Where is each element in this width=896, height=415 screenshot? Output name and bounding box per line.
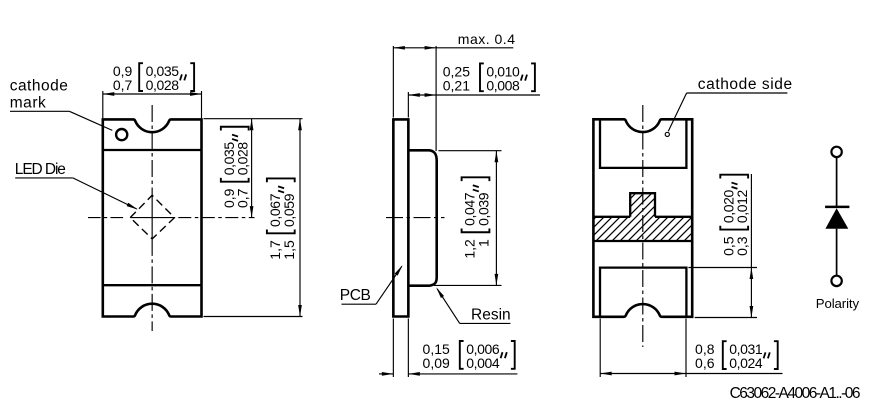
svg-text:mark: mark (10, 94, 47, 111)
svg-text:C63062-A4006-A1..-06: C63062-A4006-A1..-06 (730, 385, 860, 402)
extension line PCB left top (392, 46, 394, 118)
dimension line 0,5/0,3 (750, 174, 752, 318)
LED die diamond (dashed) (130, 195, 174, 239)
svg-text:0,039: 0,039 (476, 192, 492, 226)
dim text rotated 1,7/1,5 [0.067/0.059] (267, 178, 297, 259)
leader line cathode mark (10, 110, 69, 112)
svg-text:Polarity: Polarity (816, 296, 860, 311)
polarity wire bottom (836, 229, 838, 276)
svg-text:0,028: 0,028 (235, 142, 251, 176)
svg-text:0,028: 0,028 (146, 77, 180, 93)
front view horizontal centerline (88, 217, 126, 219)
extension line body bottom right (695, 317, 757, 319)
svg-text:PCB: PCB (340, 287, 371, 304)
leader line PCB (342, 303, 377, 305)
svg-text:cathode side: cathode side (698, 76, 793, 93)
dim text rotated 0,9/0,7 [0.035/0.028] (221, 127, 251, 208)
LED package front view body outline (103, 119, 202, 316)
dim text 0,15/0,09 [0.006/0.004] (423, 341, 515, 371)
leader line cathode side (687, 92, 788, 94)
extension line top edge right (204, 118, 303, 120)
back view cathode pad inner rect (600, 120, 686, 168)
svg-text:max. 0.4: max. 0.4 (458, 31, 516, 47)
svg-text:0,3: 0,3 (734, 236, 750, 256)
svg-text:LED Die: LED Die (15, 161, 65, 178)
leader line LED Die (15, 177, 73, 179)
dim text 0,9/0,7 [0.035/0.028] (113, 63, 194, 93)
extension line PCB right bottom (407, 319, 409, 378)
cathode mark circle (116, 129, 127, 140)
svg-text:0,024: 0,024 (729, 355, 763, 371)
dim text 0,25/0,21 [0.010/0.008] (443, 63, 535, 93)
dimension line 1,2/1 (495, 151, 497, 286)
dim text 0,8/0,6 [0.031/0.024] (695, 341, 778, 371)
diode triangle (825, 208, 848, 229)
dimension line 1,7/1,5 right (full height) (299, 119, 301, 317)
polarity top terminal circle (831, 147, 841, 157)
front view bottom terminal band line (103, 284, 202, 286)
back view hatched band outline (593, 216, 630, 218)
extension line anode pad top right (688, 267, 757, 269)
dim text rotated 0,5/0,3 [0.020/0.012] (720, 175, 750, 256)
dimension line 0,15/0,09 (379, 373, 393, 375)
polarity wire top (836, 157, 838, 206)
extension lines top width dim (102, 91, 104, 118)
side view horizontal centerline (386, 217, 445, 219)
svg-text:0,012: 0,012 (734, 190, 750, 224)
back view center tab outline (630, 193, 655, 217)
svg-text:0,008: 0,008 (486, 77, 520, 93)
polarity bottom terminal circle (831, 276, 841, 286)
svg-text:0,6: 0,6 (695, 355, 715, 371)
dimension line 0,9/0,7 right (half height) (251, 119, 253, 218)
extension line bottom edge right (204, 316, 303, 318)
dimension line 0,25/0,21 (408, 94, 540, 96)
back view vertical centerline (642, 105, 644, 347)
dimension line 0,8/0,6 (600, 373, 782, 375)
dim text rotated 1,2/1 [0.047/0.039] (462, 177, 492, 258)
dimension line 0,9/0,7 top (103, 93, 202, 95)
back view body outline (593, 119, 692, 317)
extension lines pad width bottom (599, 319, 601, 378)
extension line resin right top (435, 46, 437, 151)
PCB side view outline (393, 119, 408, 316)
front view vertical centerline (151, 105, 153, 195)
extension line PCB right top (407, 92, 409, 118)
svg-text:0,004: 0,004 (466, 355, 500, 371)
svg-text:0,09: 0,09 (423, 355, 450, 371)
extension line PCB left bottom (392, 319, 394, 378)
resin side profile outline (409, 150, 437, 285)
front view cathode band line (103, 149, 202, 151)
svg-text:0,7: 0,7 (235, 188, 251, 208)
svg-text:1,5: 1,5 (281, 240, 297, 260)
back view anode pad inner rect (600, 268, 686, 316)
svg-text:0,7: 0,7 (113, 77, 133, 93)
extension line resin top right (439, 150, 502, 152)
diode cathode bar (825, 206, 849, 209)
svg-text:1: 1 (476, 239, 492, 247)
svg-text:0,059: 0,059 (281, 193, 297, 227)
svg-text:cathode: cathode (10, 78, 69, 95)
dimension line max 0.4 (393, 47, 513, 49)
svg-text:Resin: Resin (471, 307, 511, 324)
leader line Resin (460, 322, 511, 324)
extension line resin bottom right (434, 284, 502, 286)
svg-text:0,21: 0,21 (443, 77, 470, 93)
